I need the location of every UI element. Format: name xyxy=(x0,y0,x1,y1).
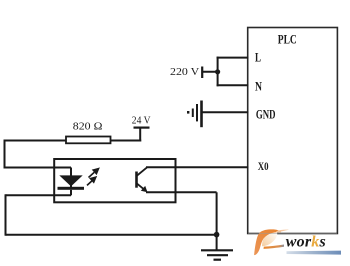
svg-text:220 V: 220 V xyxy=(170,66,199,78)
wire vertical bracket L-N xyxy=(217,57,219,87)
wire emitter vertical down xyxy=(216,192,218,249)
wire 24V drop xyxy=(139,128,141,142)
PLC box bottom edge seen through watermark xyxy=(248,233,337,235)
svg-text:X0: X0 xyxy=(258,159,269,173)
e swoosh wisp xyxy=(276,230,289,233)
e swoosh xyxy=(254,229,281,255)
wire to L xyxy=(217,57,249,59)
LED D1 xyxy=(58,168,85,196)
wire top right of resistor xyxy=(111,140,142,142)
wire earth to GND xyxy=(202,111,249,113)
wire to N xyxy=(217,84,249,86)
wire left vertical upper xyxy=(4,140,6,169)
LED light arrows xyxy=(87,169,99,186)
wire anode xyxy=(5,167,72,169)
wire 220V to junction xyxy=(202,71,218,73)
wire bottom xyxy=(6,234,217,236)
phototransistor Q1 xyxy=(137,168,148,193)
wire top left of resistor xyxy=(4,140,66,142)
e-works watermark logo xyxy=(248,229,341,255)
PLC box U1 xyxy=(248,28,338,234)
svg-text:L: L xyxy=(255,50,261,65)
220V terminal bar xyxy=(201,67,203,79)
svg-text:PLC: PLC xyxy=(278,32,297,47)
earth symbol xyxy=(187,101,202,128)
e crossbar xyxy=(264,245,285,249)
optocoupler box U2 xyxy=(54,159,175,202)
ground symbol xyxy=(201,250,233,259)
24V terminal bar xyxy=(134,126,150,128)
resistor R1 820 ohm xyxy=(66,137,111,144)
svg-text:GND: GND xyxy=(256,107,276,122)
wire collector to X0 xyxy=(146,166,249,168)
junction dot A xyxy=(215,69,220,74)
svg-text:works: works xyxy=(286,234,326,251)
wire left vertical lower xyxy=(5,194,7,235)
svg-text:24 V: 24 V xyxy=(132,115,151,127)
wire cathode xyxy=(6,194,72,196)
wire emitter xyxy=(146,191,217,193)
underline swoosh xyxy=(287,251,342,255)
svg-text:820 Ω: 820 Ω xyxy=(73,121,103,133)
counter fill of e xyxy=(262,232,277,246)
junction dot B xyxy=(214,232,220,238)
svg-text:N: N xyxy=(255,79,262,94)
